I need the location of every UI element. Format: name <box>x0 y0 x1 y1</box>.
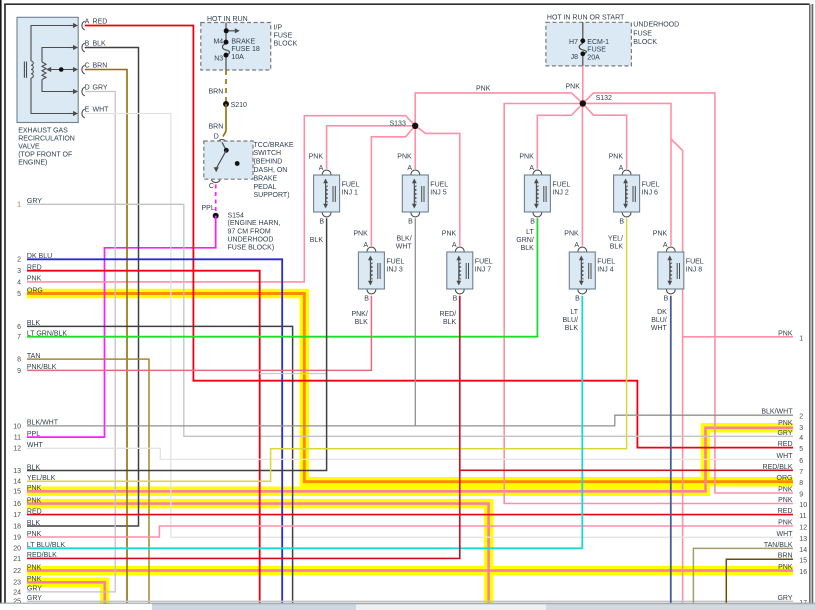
svg-text:3: 3 <box>17 268 21 275</box>
svg-text:PNK: PNK <box>653 231 668 238</box>
svg-text:8: 8 <box>17 357 21 364</box>
switch NC contact dot <box>235 161 240 166</box>
pin D arc <box>218 140 227 143</box>
svg-text:PNK: PNK <box>609 154 624 161</box>
EGR wiper junction dot <box>59 67 64 72</box>
svg-text:D: D <box>85 85 90 92</box>
svg-text:TCC/BRAKE: TCC/BRAKE <box>254 142 294 149</box>
svg-text:FUEL: FUEL <box>386 259 404 266</box>
EGR pins A-E <box>69 25 75 27</box>
wire BRN egr C down <box>85 70 127 604</box>
svg-text:WHT: WHT <box>651 325 668 332</box>
svg-text:DK BLU: DK BLU <box>27 253 52 260</box>
svg-text:BRAKE: BRAKE <box>254 175 278 182</box>
svg-text:25: 25 <box>13 599 21 606</box>
svg-text:LT: LT <box>570 309 578 316</box>
svg-text:FUEL: FUEL <box>430 182 448 189</box>
wire PNK S133 to left row 4 <box>27 116 415 282</box>
wire DK BLU/WHT fuel inj 8 down <box>670 296 672 603</box>
svg-text:B: B <box>530 218 535 225</box>
svg-text:PNK: PNK <box>778 487 793 494</box>
svg-text:E: E <box>85 107 90 114</box>
svg-text:YEL/BLK: YEL/BLK <box>27 475 56 482</box>
svg-text:FUSE: FUSE <box>587 47 606 54</box>
svg-text:C: C <box>209 183 214 190</box>
svg-text:INJ 5: INJ 5 <box>430 189 446 196</box>
svg-text:15: 15 <box>13 489 21 496</box>
svg-text:BLK: BLK <box>27 320 41 327</box>
svg-text:PNK: PNK <box>476 86 491 93</box>
svg-text:23: 23 <box>13 580 21 587</box>
svg-text:RED/BLK: RED/BLK <box>27 552 57 559</box>
I/P fuse internal arrow <box>225 23 227 44</box>
svg-text:13: 13 <box>13 468 21 475</box>
svg-text:6: 6 <box>17 324 21 331</box>
svg-text:PPL: PPL <box>202 205 215 212</box>
fuel injector U8 (FUEL INJ 8) <box>658 247 684 294</box>
wire LT BLU/BLK left 20 to fuel inj 4 <box>27 296 582 549</box>
TCC/brake switch box <box>204 141 253 179</box>
svg-text:PNK/: PNK/ <box>351 311 367 318</box>
wire PNK S132 to fuel inj 2 <box>537 104 583 169</box>
highlighted wire PNK (left 22 to right 16) yellow band <box>27 566 793 576</box>
svg-text:B: B <box>85 41 90 48</box>
pin H7 dot <box>580 38 585 43</box>
window bottom border <box>0 602 815 604</box>
svg-text:5: 5 <box>17 291 21 298</box>
svg-text:GRN/: GRN/ <box>516 237 534 244</box>
svg-text:GRY: GRY <box>777 430 792 437</box>
svg-text:B: B <box>619 218 624 225</box>
svg-text:BLK: BLK <box>521 245 535 252</box>
svg-text:BLK: BLK <box>355 319 369 326</box>
svg-text:2: 2 <box>17 257 21 264</box>
svg-text:B: B <box>364 295 369 302</box>
svg-text:14: 14 <box>799 547 807 554</box>
svg-text:6: 6 <box>799 458 803 465</box>
svg-text:GRY: GRY <box>27 595 42 602</box>
svg-text:PNK: PNK <box>309 154 324 161</box>
svg-text:FUSE: FUSE <box>633 31 652 38</box>
svg-text:7: 7 <box>799 469 803 476</box>
svg-text:21: 21 <box>13 556 21 563</box>
svg-text:20A: 20A <box>587 54 600 61</box>
wire DK BLU left 2 <box>27 259 282 603</box>
svg-text:J8: J8 <box>571 54 579 61</box>
svg-text:PNK: PNK <box>566 83 581 90</box>
EGR valve box <box>17 17 78 122</box>
wire BLK/WHT left 10 to right 2 <box>27 415 793 426</box>
wire PNK S133 to fuel inj 7 <box>415 126 460 246</box>
svg-text:PNK: PNK <box>778 520 793 527</box>
svg-text:BLK/: BLK/ <box>397 236 412 243</box>
wire PNK left 19 to right 12 <box>27 526 793 537</box>
svg-text:PNK: PNK <box>27 531 42 538</box>
svg-text:DK: DK <box>657 309 667 316</box>
wire PNK core (left 22/right 16) <box>27 569 793 572</box>
wire PNK S132 to fuel inj 6 <box>583 104 627 169</box>
wire LT GRN/BLK left 7 to fuel inj 2 <box>27 218 537 336</box>
svg-text:BLK/WHT: BLK/WHT <box>27 420 59 427</box>
wire WHT left 12 to right 6 <box>27 448 793 459</box>
svg-text:SWITCH: SWITCH <box>254 150 282 157</box>
svg-text:FUEL: FUEL <box>342 182 360 189</box>
svg-text:GRY: GRY <box>27 586 42 593</box>
svg-text:PEDAL: PEDAL <box>254 184 277 191</box>
svg-text:A: A <box>619 165 624 172</box>
wire GRY left 1 to right 4 <box>27 204 793 436</box>
svg-text:BRAKE: BRAKE <box>231 38 255 45</box>
svg-text:5: 5 <box>799 446 803 453</box>
svg-text:BRN: BRN <box>778 553 793 560</box>
svg-text:INJ 6: INJ 6 <box>642 189 658 196</box>
svg-text:97 CM FROM: 97 CM FROM <box>228 229 271 236</box>
wire PNK S132 down to fuel inj 4 <box>581 104 583 246</box>
underhood fuse block box <box>546 22 632 66</box>
svg-text:S132: S132 <box>596 95 612 102</box>
svg-text:FUEL: FUEL <box>686 259 704 266</box>
svg-text:TAN: TAN <box>27 353 40 360</box>
svg-text:I/P: I/P <box>274 24 283 31</box>
svg-text:A: A <box>407 165 412 172</box>
wire PNK S133 to fuel inj 1 <box>327 126 416 169</box>
svg-text:PNK: PNK <box>353 231 368 238</box>
svg-text:BLOCK: BLOCK <box>274 41 298 48</box>
fuel injector U4 (FUEL INJ 4) <box>569 247 595 294</box>
splice S154 <box>213 213 219 219</box>
wire PNK/BLK left 9 to fuel inj 3 <box>27 296 371 371</box>
svg-text:A: A <box>363 242 368 249</box>
svg-text:10: 10 <box>13 423 21 430</box>
pin N3 dot <box>224 53 229 58</box>
svg-text:WHT: WHT <box>27 442 44 449</box>
highlighted wire PNK (left 15 to right 3) yellow band <box>27 428 793 492</box>
svg-text:B: B <box>453 295 458 302</box>
frame: next page left border (double line) <box>811 4 813 603</box>
svg-text:WHT: WHT <box>93 107 110 114</box>
svg-text:RECIRCULATION: RECIRCULATION <box>18 136 75 143</box>
svg-text:B: B <box>575 295 580 302</box>
wire PNK S132 up-right to right 9 <box>583 93 793 493</box>
svg-text:SUPPORT): SUPPORT) <box>254 192 290 199</box>
wire PNK S132 right to fuel inj 8 <box>583 103 671 245</box>
svg-text:9: 9 <box>799 492 803 499</box>
svg-text:BLK: BLK <box>443 319 457 326</box>
svg-text:S210: S210 <box>231 102 247 109</box>
svg-text:WHT: WHT <box>777 531 794 538</box>
svg-text:15: 15 <box>799 558 807 565</box>
switch pivot dot <box>224 148 229 153</box>
svg-text:A: A <box>319 165 324 172</box>
wire RED/BLK branch to right 7 <box>460 469 793 471</box>
svg-text:PNK: PNK <box>27 576 42 583</box>
svg-text:INJ 2: INJ 2 <box>552 189 568 196</box>
svg-text:10: 10 <box>799 502 807 509</box>
svg-text:GRY: GRY <box>93 85 108 92</box>
wire RED/BLK left 21 to fuel inj 7 <box>27 296 460 559</box>
fuel injector U7 (FUEL INJ 7) <box>447 247 473 294</box>
scrollbar track <box>152 604 815 610</box>
svg-text:PNK: PNK <box>27 564 42 571</box>
svg-text:WHT: WHT <box>777 453 794 460</box>
svg-text:UNDERHOOD: UNDERHOOD <box>228 237 274 244</box>
svg-text:PNK: PNK <box>519 154 534 161</box>
wire PNK core (left 15/right 3) <box>27 428 793 492</box>
svg-text:24: 24 <box>13 589 21 596</box>
fuel injector U6 (FUEL INJ 6) <box>614 170 640 217</box>
svg-text:PNK: PNK <box>442 231 457 238</box>
svg-text:INJ 7: INJ 7 <box>475 266 491 273</box>
svg-text:PNK/BLK: PNK/BLK <box>27 364 57 371</box>
fuse BRAKE FUSE 18 10A <box>222 44 229 55</box>
svg-text:ENGINE): ENGINE) <box>18 160 47 167</box>
svg-text:YEL/: YEL/ <box>608 236 623 243</box>
svg-text:PNK: PNK <box>27 497 42 504</box>
svg-text:B: B <box>319 218 324 225</box>
wire BRN to TCC switch <box>223 104 226 137</box>
wire GRY left 25 to right 17 <box>27 600 793 602</box>
wire gray jumper <box>260 373 327 375</box>
wire RED left 17 to right 11 <box>27 514 793 516</box>
svg-text:PNK: PNK <box>778 497 793 504</box>
EGR solenoid coil + internal wiring <box>31 26 70 62</box>
wire BLK left 6 <box>27 326 293 603</box>
wire RED left 3 <box>27 271 260 603</box>
svg-text:BLK: BLK <box>93 41 107 48</box>
wire RED egr A to right 5 <box>85 26 793 448</box>
svg-text:S133: S133 <box>390 120 406 127</box>
svg-text:17: 17 <box>13 512 21 519</box>
svg-text:BLK/WHT: BLK/WHT <box>761 409 793 416</box>
svg-text:INJ 1: INJ 1 <box>342 189 358 196</box>
svg-text:PNK: PNK <box>564 231 579 238</box>
svg-text:20: 20 <box>13 546 21 553</box>
svg-text:LT: LT <box>526 229 534 236</box>
svg-text:14: 14 <box>13 479 21 486</box>
highlighted wire PNK (left 23) yellow band <box>27 582 105 604</box>
highlighted wire ORG (left 5 to right 8) yellow band <box>27 294 793 482</box>
svg-text:GRY: GRY <box>777 595 792 602</box>
svg-text:(TOP FRONT OF: (TOP FRONT OF <box>18 152 72 159</box>
svg-text:11: 11 <box>14 435 21 442</box>
svg-text:1: 1 <box>799 336 803 343</box>
svg-text:FUSE 18: FUSE 18 <box>231 46 260 53</box>
svg-text:BLK: BLK <box>565 325 579 332</box>
wire PNK branch to right 1 <box>671 139 683 603</box>
svg-text:A: A <box>452 242 457 249</box>
svg-text:1: 1 <box>17 202 21 209</box>
wire PNK core (left 16) <box>27 504 489 603</box>
svg-text:PNK: PNK <box>778 564 793 571</box>
svg-text:UNDERHOOD: UNDERHOOD <box>633 22 679 29</box>
wire BLK egr B to left 18 <box>27 48 139 527</box>
wire TAN/BLK right 14 <box>693 548 793 603</box>
fuel injector U1 (FUEL INJ 1) <box>314 170 340 217</box>
svg-text:16: 16 <box>13 501 21 508</box>
EGR potentiometer (resistor + wiper) <box>42 48 70 63</box>
svg-text:B: B <box>664 295 669 302</box>
svg-text:DASH, ON: DASH, ON <box>254 167 288 174</box>
svg-text:HOT IN RUN OR START: HOT IN RUN OR START <box>547 15 625 22</box>
frame: previous page right border stub <box>0 0 2 603</box>
wire PNK fuse to S132 <box>582 66 584 101</box>
svg-text:INJ 4: INJ 4 <box>597 266 613 273</box>
svg-text:8: 8 <box>799 480 803 487</box>
I/P feed dot <box>224 28 229 33</box>
svg-text:(ENGINE HARN,: (ENGINE HARN, <box>228 220 281 227</box>
svg-text:10A: 10A <box>231 54 244 61</box>
svg-text:FUSE: FUSE <box>274 33 293 40</box>
svg-text:PNK: PNK <box>397 154 412 161</box>
svg-text:BLK: BLK <box>27 464 41 471</box>
svg-text:19: 19 <box>13 534 21 541</box>
svg-text:BRN: BRN <box>93 63 108 70</box>
svg-text:16: 16 <box>799 569 807 576</box>
wire BLK left 13 to fuel inj 1 <box>27 218 327 470</box>
svg-text:PNK: PNK <box>778 420 793 427</box>
wire WHT egr E to right 13 <box>85 114 793 538</box>
svg-text:BRN: BRN <box>209 124 224 131</box>
svg-text:N3: N3 <box>214 56 223 63</box>
wire PNK S132 left to right 10 <box>504 104 793 504</box>
fuse ECM-1 20A <box>582 22 584 43</box>
wire TAN left 8 <box>27 359 149 603</box>
svg-text:RED: RED <box>778 508 793 515</box>
svg-text:BRN: BRN <box>209 88 224 95</box>
wire PPL to left row 11 <box>27 216 216 437</box>
svg-text:INJ 3: INJ 3 <box>386 266 402 273</box>
svg-text:BLK: BLK <box>310 237 324 244</box>
wire BRN right 15 <box>726 559 793 603</box>
svg-text:PNK: PNK <box>778 331 793 338</box>
svg-text:PNK: PNK <box>27 485 42 492</box>
svg-text:4: 4 <box>17 279 21 286</box>
svg-text:7: 7 <box>17 334 21 341</box>
svg-text:GRY: GRY <box>27 198 42 205</box>
svg-text:FUEL: FUEL <box>552 182 570 189</box>
splice S133 <box>412 123 418 129</box>
splice S210 <box>223 101 229 107</box>
svg-text:(BEHIND: (BEHIND <box>254 159 283 166</box>
svg-text:A: A <box>663 242 668 249</box>
wire PNK core (left 23) <box>27 582 105 604</box>
svg-text:RED: RED <box>27 265 42 272</box>
svg-text:WHT: WHT <box>396 244 413 251</box>
highlighted wire PNK (left 16) yellow band <box>27 504 489 603</box>
wire PNK S133 to fuel inj 3 <box>371 126 415 246</box>
svg-text:C: C <box>85 63 90 70</box>
fuel injector U2 (FUEL INJ 2) <box>524 170 550 217</box>
svg-text:BLU/: BLU/ <box>562 317 578 324</box>
svg-text:H7: H7 <box>569 39 578 46</box>
svg-text:13: 13 <box>799 536 807 543</box>
svg-text:LT BLU/BLK: LT BLU/BLK <box>27 542 66 549</box>
svg-text:M4: M4 <box>213 38 223 45</box>
svg-text:FUEL: FUEL <box>642 182 660 189</box>
svg-text:11: 11 <box>799 513 806 520</box>
svg-text:A: A <box>574 242 579 249</box>
svg-text:RED: RED <box>778 441 793 448</box>
svg-text:ECM-1: ECM-1 <box>587 39 609 46</box>
wire YEL/BLK left 14 to fuel inj 6 <box>27 218 627 481</box>
svg-text:2: 2 <box>799 414 803 421</box>
svg-text:LT GRN/BLK: LT GRN/BLK <box>27 331 68 338</box>
svg-text:BLK: BLK <box>27 520 41 527</box>
svg-text:ORG: ORG <box>777 475 793 482</box>
svg-text:PNK: PNK <box>27 276 42 283</box>
svg-text:TAN/BLK: TAN/BLK <box>764 542 793 549</box>
wire PNK S132-S133 link <box>415 93 583 169</box>
svg-text:RED: RED <box>27 508 42 515</box>
svg-text:BLU/: BLU/ <box>651 317 667 324</box>
svg-text:RED/BLK: RED/BLK <box>763 464 793 471</box>
svg-text:BLOCK: BLOCK <box>633 39 657 46</box>
svg-text:3: 3 <box>799 425 803 432</box>
svg-text:ORG: ORG <box>27 287 43 294</box>
svg-text:PPL: PPL <box>27 431 40 438</box>
pin J8 dot <box>580 51 585 56</box>
TCC switch contacts <box>222 142 226 150</box>
wire ORG core <box>27 294 793 482</box>
svg-text:12: 12 <box>799 525 807 532</box>
svg-text:S154: S154 <box>228 213 244 220</box>
svg-text:4: 4 <box>799 435 803 442</box>
wire GRY egr D to left 24 <box>27 92 115 592</box>
svg-text:EXHAUST GAS: EXHAUST GAS <box>18 128 68 135</box>
svg-text:VALVE: VALVE <box>18 144 40 151</box>
wire PPL dashed from switch C <box>215 185 217 214</box>
fuel injector U3 (FUEL INJ 3) <box>358 247 384 294</box>
svg-text:9: 9 <box>17 368 21 375</box>
svg-text:FUEL: FUEL <box>475 259 493 266</box>
svg-text:FUSE BLOCK): FUSE BLOCK) <box>228 245 275 252</box>
fuel injector U5 (FUEL INJ 5) <box>402 170 428 217</box>
pin C arc <box>211 180 220 183</box>
svg-text:FUEL: FUEL <box>597 259 615 266</box>
svg-text:18: 18 <box>13 523 21 530</box>
svg-text:22: 22 <box>13 568 21 575</box>
svg-text:A: A <box>529 165 534 172</box>
pin M4 dot <box>224 40 229 45</box>
splice S132 <box>580 100 586 106</box>
svg-text:INJ 8: INJ 8 <box>686 266 702 273</box>
svg-text:D: D <box>214 134 219 141</box>
svg-text:BLK: BLK <box>610 244 624 251</box>
svg-text:12: 12 <box>13 446 21 453</box>
svg-text:RED/: RED/ <box>439 311 456 318</box>
svg-text:B: B <box>408 218 413 225</box>
wire BRN dashed from I/P fuse <box>225 70 227 103</box>
wire BLK/WHT fuel inj 5 riser <box>414 218 416 426</box>
